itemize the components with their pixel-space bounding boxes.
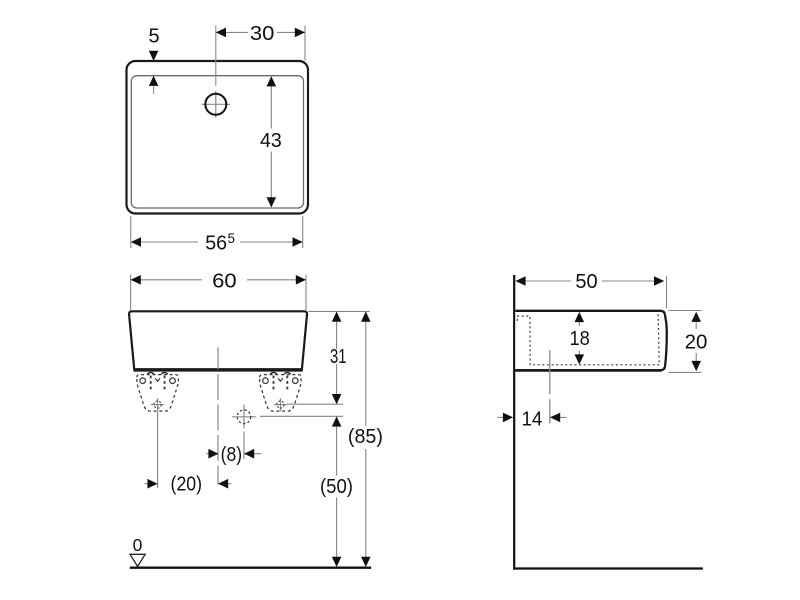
dimension 14 (wall to drain) bbox=[497, 408, 566, 430]
front view: basin bottom edge bbox=[134, 369, 303, 372]
dimension (8) (centre to drain) bbox=[206, 444, 262, 466]
dimension 56.5 extension lines bbox=[131, 216, 303, 248]
svg-text:(50): (50) bbox=[320, 476, 353, 498]
svg-text:14: 14 bbox=[521, 408, 542, 430]
left bracket screw drop line bbox=[157, 412, 159, 489]
drain drop line bbox=[243, 431, 245, 459]
svg-text:(85): (85) bbox=[348, 426, 383, 448]
svg-text:(8): (8) bbox=[221, 444, 243, 466]
dimension 20 (basin height) bbox=[685, 312, 708, 371]
top view: outer rim of washbasin bbox=[127, 61, 309, 214]
datum triangle bbox=[130, 554, 145, 566]
dimension 60 (overall width) bbox=[131, 271, 306, 293]
dimension 5 upper arrow bbox=[149, 51, 159, 61]
side view: drain centre line bbox=[549, 350, 551, 423]
svg-text:31: 31 bbox=[330, 346, 347, 368]
svg-text:43: 43 bbox=[260, 130, 282, 152]
extension line drain level bbox=[260, 415, 343, 417]
svg-text:18: 18 bbox=[569, 328, 589, 350]
dimension 5 lower arrow bbox=[149, 76, 159, 94]
side view: wall line bbox=[513, 275, 515, 570]
datum 0 label bbox=[133, 535, 143, 555]
dimension 18 (inner depth) bbox=[569, 312, 589, 365]
svg-text:30: 30 bbox=[250, 23, 275, 45]
dimension 50 (wall to front edge) bbox=[515, 271, 664, 293]
front view dimension 60 extension lines bbox=[131, 275, 306, 310]
drain hole (dashed circle) bbox=[237, 410, 251, 424]
side view: basin bottom edge bbox=[515, 369, 661, 371]
top view: tap hole centre cross bbox=[202, 91, 231, 118]
side view: basin body outline bbox=[515, 311, 667, 370]
svg-text:5: 5 bbox=[149, 26, 160, 48]
dimension 30 (tap hole to right edge) bbox=[216, 23, 305, 45]
front view: centre line below basin (dashed) bbox=[217, 374, 219, 484]
dimension (50) (floor to drain) bbox=[320, 416, 353, 567]
extension line bracket screw level bbox=[287, 403, 343, 405]
svg-text:60: 60 bbox=[212, 271, 237, 293]
side view dim 20 extension lines bbox=[668, 311, 702, 373]
dimension (20) (bracket to centre) bbox=[145, 473, 232, 495]
dimension (85) (floor to basin top) bbox=[348, 312, 383, 567]
svg-text:0: 0 bbox=[133, 535, 143, 555]
svg-text:50: 50 bbox=[575, 271, 597, 293]
right mounting bracket (hidden, dashed) bbox=[260, 372, 301, 411]
svg-text:20: 20 bbox=[685, 332, 708, 354]
dimension 5 (rim width) label bbox=[149, 26, 160, 48]
extension line basin top to (85) bbox=[309, 310, 370, 312]
side view floor line bbox=[513, 567, 703, 569]
svg-text:(20): (20) bbox=[171, 473, 203, 495]
left mounting bracket (hidden, dashed) bbox=[137, 372, 178, 411]
dimension 43 (bowl depth front-back) bbox=[260, 76, 282, 207]
svg-text:56: 56 bbox=[205, 232, 227, 254]
dimension 31 (top to bracket screws) bbox=[330, 312, 347, 405]
top view: right extension line for dim 30 bbox=[304, 26, 306, 61]
front view floor line bbox=[130, 567, 371, 569]
top view: inner bowl edge bbox=[131, 76, 303, 208]
drain centre cross bbox=[232, 405, 256, 429]
top view: centre extension line for dim 30 bbox=[215, 26, 217, 87]
dimension 56 5 (inner bowl width) bbox=[131, 231, 303, 254]
side view dim 50 extension line bbox=[666, 276, 668, 308]
top view: tap hole bbox=[205, 94, 226, 115]
svg-text:5: 5 bbox=[227, 231, 235, 246]
front view: centre line inside basin bbox=[217, 347, 219, 369]
front view: basin body outline bbox=[129, 311, 307, 369]
side view: inner bowl profile (dotted) bbox=[517, 314, 659, 365]
